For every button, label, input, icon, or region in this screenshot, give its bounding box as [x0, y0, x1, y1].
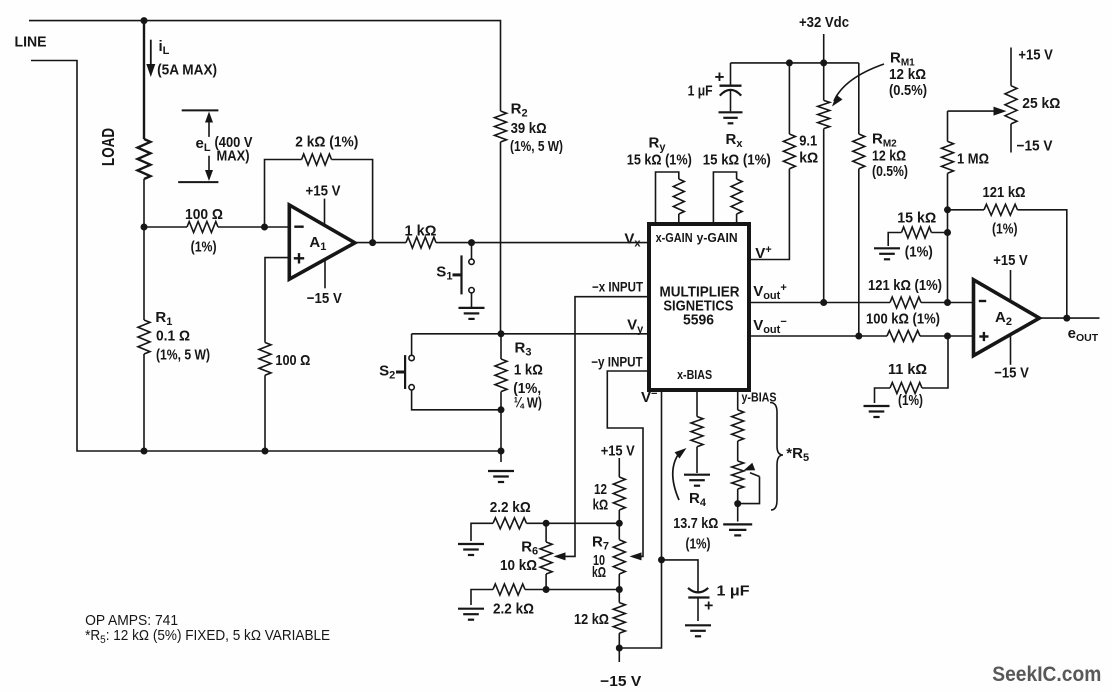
- svg-text:−x INPUT: −x INPUT: [592, 279, 644, 294]
- svg-text:(1%): (1%): [191, 239, 217, 256]
- svg-text:kΩ: kΩ: [593, 496, 609, 513]
- svg-text:x-GAIN: x-GAIN: [656, 230, 693, 245]
- svg-text:LOAD: LOAD: [98, 128, 118, 166]
- svg-text:11 kΩ: 11 kΩ: [888, 361, 927, 378]
- svg-text:10 kΩ: 10 kΩ: [500, 557, 537, 574]
- svg-text:(1%): (1%): [686, 536, 711, 553]
- svg-text:15 kΩ (1%): 15 kΩ (1%): [703, 152, 771, 169]
- svg-text:1 MΩ: 1 MΩ: [957, 151, 989, 168]
- svg-text:100 Ω: 100 Ω: [275, 352, 310, 369]
- svg-text:(1%, 5 W): (1%, 5 W): [510, 138, 563, 155]
- svg-text:LINE: LINE: [15, 34, 47, 51]
- svg-text:−15 V: −15 V: [307, 290, 342, 307]
- svg-text:y-GAIN: y-GAIN: [697, 230, 738, 245]
- svg-text:+15 V: +15 V: [1018, 47, 1053, 64]
- svg-text:1 kΩ: 1 kΩ: [405, 223, 437, 240]
- svg-text:(0.5%): (0.5%): [889, 82, 927, 99]
- svg-text:(1%): (1%): [905, 244, 933, 261]
- svg-text:2 kΩ (1%): 2 kΩ (1%): [295, 134, 358, 151]
- svg-text:25 kΩ: 25 kΩ: [1022, 95, 1060, 112]
- svg-text:1 μF: 1 μF: [688, 83, 713, 100]
- svg-text:+: +: [704, 598, 713, 615]
- svg-text:5596: 5596: [683, 311, 714, 328]
- svg-text:100 Ω: 100 Ω: [185, 206, 223, 223]
- svg-text:¼ W): ¼ W): [514, 395, 542, 412]
- svg-text:(5A MAX): (5A MAX): [157, 62, 217, 79]
- svg-text:−15 V: −15 V: [994, 365, 1029, 382]
- svg-text:MAX): MAX): [217, 148, 250, 165]
- svg-text:12 kΩ: 12 kΩ: [872, 148, 906, 165]
- svg-text:0.1 Ω: 0.1 Ω: [156, 328, 190, 345]
- svg-text:(0.5%): (0.5%): [872, 163, 908, 180]
- svg-text:y-BIAS: y-BIAS: [742, 390, 777, 405]
- svg-text:*R5: 12 kΩ (5%) FIXED, 5 kΩ VA: *R5: 12 kΩ (5%) FIXED, 5 kΩ VARIABLE: [85, 627, 330, 646]
- svg-text:kΩ: kΩ: [592, 564, 606, 581]
- svg-text:1 kΩ: 1 kΩ: [514, 362, 543, 379]
- svg-text:15 kΩ: 15 kΩ: [897, 209, 936, 226]
- svg-text:2.2 kΩ: 2.2 kΩ: [493, 601, 534, 618]
- svg-text:SeekIC.com: SeekIC.com: [992, 662, 1101, 686]
- svg-text:−15 V: −15 V: [600, 673, 641, 690]
- svg-text:+32 Vdc: +32 Vdc: [799, 14, 849, 31]
- svg-text:13.7 kΩ: 13.7 kΩ: [673, 515, 718, 532]
- svg-text:12 kΩ: 12 kΩ: [574, 611, 609, 628]
- svg-text:100 kΩ (1%): 100 kΩ (1%): [866, 311, 940, 328]
- svg-text:+15 V: +15 V: [306, 183, 341, 200]
- svg-text:x-BIAS: x-BIAS: [677, 367, 712, 382]
- svg-text:121 kΩ: 121 kΩ: [983, 184, 1026, 201]
- svg-text:2.2 kΩ: 2.2 kΩ: [490, 499, 531, 516]
- svg-text:kΩ: kΩ: [799, 150, 818, 167]
- svg-text:+: +: [715, 68, 725, 87]
- svg-text:−15 V: −15 V: [1017, 138, 1053, 155]
- svg-text:+15 V: +15 V: [993, 252, 1027, 269]
- svg-text:+15 V: +15 V: [601, 443, 635, 460]
- svg-text:121 kΩ (1%): 121 kΩ (1%): [868, 277, 942, 294]
- svg-text:(1%): (1%): [992, 221, 1018, 238]
- svg-text:−y INPUT: −y INPUT: [591, 355, 643, 370]
- svg-text:9.1: 9.1: [799, 133, 817, 150]
- svg-text:39 kΩ: 39 kΩ: [511, 120, 547, 137]
- svg-text:12 kΩ: 12 kΩ: [889, 66, 926, 83]
- svg-text:15 kΩ (1%): 15 kΩ (1%): [627, 152, 692, 169]
- svg-text:1 μF: 1 μF: [717, 583, 750, 600]
- svg-text:(1%): (1%): [898, 392, 923, 409]
- svg-text:(1%, 5 W): (1%, 5 W): [156, 347, 210, 364]
